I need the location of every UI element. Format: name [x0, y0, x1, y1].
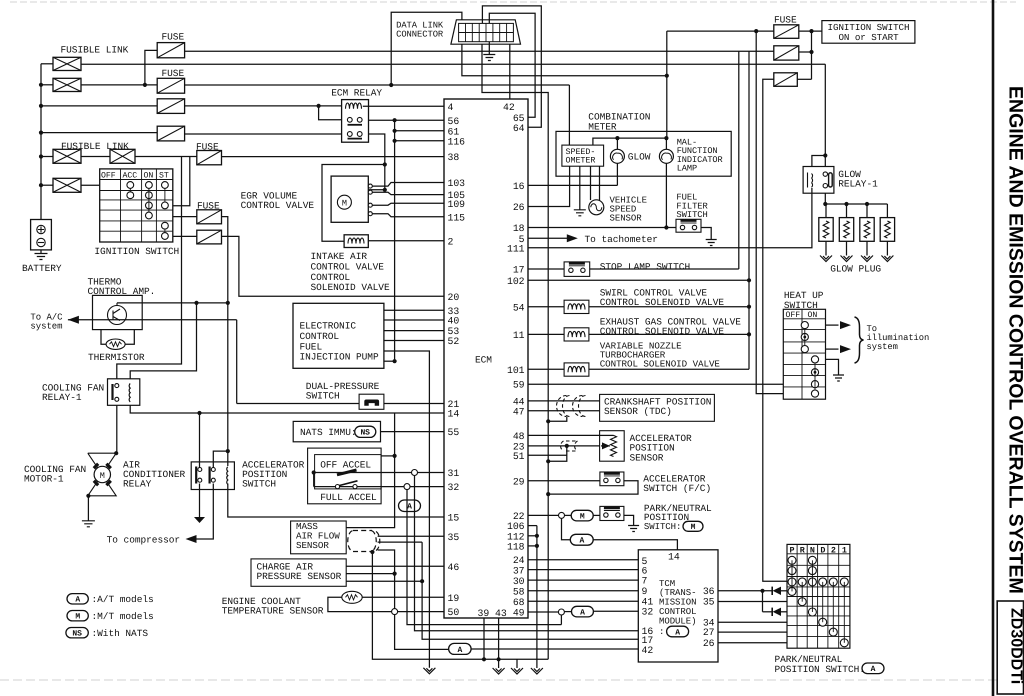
svg-text:1: 1: [842, 545, 847, 555]
svg-text:ACC: ACC: [123, 172, 138, 181]
svg-text:system: system: [867, 342, 898, 352]
wire connector ground: [488, 42, 490, 55]
wire accel switch common to ECM 15: [228, 484, 444, 518]
A/C relay + accelerator position switch box: [191, 462, 234, 490]
wire relay coil to ECM pin4: [363, 105, 444, 107]
wire ECM 39 to ground bus: [483, 618, 485, 659]
svg-text:M: M: [75, 613, 80, 622]
svg-text:51: 51: [513, 451, 525, 462]
svg-text:4: 4: [448, 102, 454, 113]
svg-text:P: P: [790, 545, 795, 555]
svg-text:MOTOR-1: MOTOR-1: [24, 474, 64, 485]
svg-text:To compressor: To compressor: [107, 535, 180, 546]
fuse F8 right top: [774, 25, 799, 39]
wire relay contact1 to pins 56/61/116: [369, 119, 445, 121]
PNP-A contacts N column: [808, 556, 816, 564]
solenoid swirl control valve: [564, 300, 589, 313]
wire intake solenoid to ECM pin2: [368, 240, 444, 242]
svg-text:RELAY-1: RELAY-1: [838, 179, 878, 190]
heat up switch contacts lower: [811, 356, 818, 363]
speedometer: [562, 145, 604, 166]
svg-text::A/T models: :A/T models: [92, 594, 154, 605]
svg-text:A: A: [75, 596, 80, 605]
diode D2: [771, 608, 773, 616]
wire FL3b to fuse F5: [135, 156, 197, 158]
wire ECM 68 to TCM 41: [528, 600, 638, 602]
svg-text:RELAY-1: RELAY-1: [42, 392, 82, 403]
fuse F9 right middle: [774, 46, 799, 60]
wire ECM 101 to turbo solenoid: [528, 368, 564, 370]
wire F1 output long: [185, 50, 774, 52]
wire glow plug bus: [824, 193, 826, 204]
svg-text:111: 111: [507, 243, 525, 254]
wire ECM 106/112/118 bracket: [528, 525, 537, 527]
svg-text:58: 58: [513, 587, 525, 598]
battery bus wire: [40, 64, 42, 220]
engine coolant temperature sensor: [342, 591, 362, 603]
wire ECM 22 line: [528, 514, 562, 516]
oval A (31/32): [399, 500, 421, 512]
PNP-A contacts 2 column: [829, 578, 837, 586]
svg-text:14: 14: [668, 551, 680, 562]
svg-text:CONTROL: CONTROL: [311, 272, 351, 283]
svg-text::M/T models: :M/T models: [92, 611, 154, 622]
svg-text:101: 101: [507, 365, 525, 376]
svg-text:A: A: [407, 503, 412, 512]
wire ign box feed vertical: [811, 31, 813, 79]
ignition switch contacts ON: [146, 182, 153, 189]
wire F9 right side: [799, 51, 812, 53]
svg-text:17: 17: [513, 265, 525, 276]
node dots ground bus: [482, 657, 486, 661]
wire F1 input from FL2 node: [145, 50, 157, 85]
cooling fan motor: [88, 453, 116, 496]
svg-text:ECM: ECM: [475, 355, 492, 366]
wire TCM 34 to PNP-A: [718, 621, 787, 623]
svg-text:PRESSURE SENSOR: PRESSURE SENSOR: [257, 571, 342, 582]
NATS IMMU box: [293, 421, 380, 441]
svg-text:32: 32: [642, 607, 654, 618]
svg-text:FUSE: FUSE: [162, 32, 185, 43]
oval NS: [355, 426, 376, 437]
svg-text:SWITCH:: SWITCH:: [644, 522, 681, 532]
svg-text:39 43: 39 43: [478, 608, 507, 619]
legend oval M: [67, 611, 88, 621]
ECM relay contact 1: [347, 117, 352, 122]
wire pump to ECM 40: [384, 319, 444, 321]
off accel closed contact: [337, 470, 357, 475]
wire relay contact2 to EGR loop: [369, 134, 385, 190]
svg-text:FUSIBLE LINK: FUSIBLE LINK: [61, 141, 129, 152]
wire ignition start feed: [667, 30, 774, 32]
svg-text:64: 64: [513, 123, 525, 134]
svg-text:To tachometer: To tachometer: [585, 234, 658, 245]
wire MIL down to pin18 line: [665, 163, 667, 227]
crankshaft position sensor label box: [600, 394, 715, 421]
wire F6 output down (accel switch feed): [222, 217, 228, 303]
wire F10 output down to PNP-A common: [763, 79, 787, 581]
node dot mid wire to MIL vertical: [665, 74, 669, 78]
svg-text:SWITCH: SWITCH: [676, 210, 707, 220]
wire EGR loop to intake solenoid: [322, 165, 385, 242]
PNP-A contacts D column: [819, 578, 827, 586]
svg-text:115: 115: [448, 212, 466, 223]
svg-text:26: 26: [703, 638, 715, 649]
svg-text:49: 49: [513, 608, 525, 619]
svg-text:SENSOR (TDC): SENSOR (TDC): [604, 406, 672, 417]
cooling fan relay contact spring: [129, 384, 130, 402]
wire AC relay to ground triangle: [199, 484, 201, 518]
wire ECM 102 to feed: [528, 279, 749, 281]
wire connector pin to trunk: [482, 44, 548, 659]
wire EGR pin to ECM 105: [372, 192, 444, 194]
svg-text:2: 2: [448, 236, 454, 247]
svg-text:ON: ON: [808, 311, 818, 320]
svg-text:ON: ON: [144, 172, 154, 181]
wire TCM17 link: [422, 542, 638, 639]
wire ECM 48 to accel sensor: [528, 434, 600, 436]
wire 22 A-branch to TCM 14: [562, 518, 571, 539]
ZD30DDTi box: [997, 601, 1023, 694]
wire accel shield: [565, 444, 569, 448]
svg-text:55: 55: [448, 427, 460, 438]
vehicle speed sensor: [589, 200, 604, 215]
fuse F1 (top left): [157, 43, 184, 58]
ECM relay coil: [346, 103, 362, 109]
mass air flow sensor box: [291, 521, 347, 554]
svg-text:11: 11: [513, 330, 525, 341]
oval A on TCM42 line: [449, 643, 472, 654]
full accel open contact: [335, 485, 339, 489]
wire 49-circle down to 32-branch line: [560, 615, 562, 625]
fuse F10 right lower: [774, 73, 798, 87]
wire cooling fan relay coil feed from F5 trunk: [117, 157, 182, 379]
connector circle on 50 line: [392, 609, 398, 615]
ECM: [444, 99, 528, 618]
svg-text:116: 116: [448, 136, 466, 147]
svg-text:MODULE): MODULE): [659, 616, 696, 626]
svg-text:42: 42: [642, 645, 654, 656]
wire cooling fan relay contact feed from thermo amp: [130, 303, 196, 379]
wire pin32 branch down to 49 link: [407, 490, 561, 625]
svg-text:M: M: [580, 513, 585, 522]
accel switch inner box: [315, 455, 382, 489]
wire speedometer ground: [579, 166, 581, 210]
svg-text:STOP LAMP SWITCH: STOP LAMP SWITCH: [600, 261, 690, 272]
wire ECM 24 to TCM 5: [528, 559, 638, 561]
svg-text:N: N: [810, 545, 815, 555]
wire MAF to ECM 35: [378, 535, 444, 537]
battery B+ node dots: [39, 83, 43, 87]
wire F4 output to ECM relay contact2: [185, 133, 342, 135]
wire pump aux down to ground bus: [384, 351, 430, 668]
wire heat-up feed vertical: [756, 31, 783, 394]
heat up switch contacts upper: [801, 322, 808, 329]
svg-text:59: 59: [513, 380, 525, 391]
solenoid intake air control valve: [344, 235, 368, 248]
svg-text:ZD30DDTi: ZD30DDTi: [1008, 608, 1024, 684]
wire motor to ground: [86, 494, 90, 498]
wire glow relay contact feed: [824, 64, 826, 166]
svg-text:PARK/NEUTRAL: PARK/NEUTRAL: [775, 654, 843, 665]
wire feed T on 14 line down to MAF: [346, 413, 394, 528]
accel switch OFF/FULL outer box: [308, 448, 382, 504]
svg-text:50: 50: [448, 607, 460, 618]
arrow to A/C system: [68, 316, 79, 324]
svg-text:26: 26: [513, 202, 525, 213]
glow lamp: [616, 138, 618, 149]
svg-text:CONTROL: CONTROL: [300, 331, 340, 342]
svg-text:68: 68: [513, 597, 525, 608]
wire F2 output long to speedometer drop: [185, 84, 570, 86]
wire ECM 54 to swirl solenoid: [528, 306, 564, 308]
fusible link FL1: [41, 63, 53, 65]
EGR valve pins upper: [368, 184, 372, 188]
cooling fan relay coil pins: [111, 384, 113, 400]
wire A/C line through amp: [68, 319, 237, 321]
svg-text:TEMPERATURE SENSOR: TEMPERATURE SENSOR: [222, 606, 324, 617]
PNP-A contacts 1 column: [840, 578, 848, 586]
fuse F7: [197, 230, 222, 244]
glow relay contact: [823, 172, 827, 176]
wire TCM 27 to PNP-A: [718, 631, 787, 633]
svg-text:THERMISTOR: THERMISTOR: [88, 352, 145, 363]
thermistor bracket: [101, 330, 106, 345]
wire ECM 44 to crank sensor: [528, 400, 600, 402]
relay ECM-RELAY: [342, 100, 369, 143]
ECM relay contact 2: [347, 132, 352, 137]
wire connector loop B to ECM pin65: [489, 13, 535, 117]
svg-text:2: 2: [831, 545, 836, 555]
svg-text:INJECTION PUMP: INJECTION PUMP: [300, 352, 379, 363]
svg-text:LAMP: LAMP: [677, 163, 697, 173]
wire pump to ECM 53: [384, 330, 444, 332]
wire heat up to illumination 1: [826, 324, 839, 326]
svg-text:OFF ACCEL: OFF ACCEL: [320, 459, 371, 470]
wire ECM 49 to TCM 32 with A oval: [528, 611, 561, 613]
wire TCM 26 to PNP-A: [718, 642, 787, 644]
accelerator position sensor: [600, 431, 625, 462]
brace illumination: [855, 317, 864, 363]
wire full-accel row to ECM 32: [313, 473, 315, 487]
svg-text:CONTROL SOLENOID VALVE: CONTROL SOLENOID VALVE: [600, 297, 725, 308]
wire stop lamp feed vertical: [738, 51, 740, 269]
wire F/C switch return to trunk: [548, 481, 638, 494]
svg-text:CONTROL VALVE: CONTROL VALVE: [241, 200, 315, 211]
wire ECM 59 to heat up switch: [528, 383, 783, 385]
svg-text:CONTROL SOLENOID VALVE: CONTROL SOLENOID VALVE: [600, 358, 721, 369]
wire ECM 58 to TCM 9: [528, 590, 638, 592]
wire relay to cooling fan motor: [116, 405, 118, 453]
svg-text:OMETER: OMETER: [566, 156, 596, 166]
fuse F2: [157, 78, 184, 93]
svg-text:30: 30: [513, 576, 525, 587]
ignition switch on/start box: [822, 21, 915, 44]
wire ECM 11 to exhaust solenoid: [528, 333, 564, 335]
wire F8 to ignition switch box: [799, 30, 822, 32]
EGR volume control valve: [331, 176, 368, 222]
wire coolant sensor bracket to ECM 50: [328, 597, 444, 611]
svg-text:54: 54: [513, 302, 525, 313]
wire TCM 35 to PNP-A: [718, 601, 787, 603]
wire FL4 to ignition switch: [81, 184, 100, 186]
svg-text:SOLENOID VALVE: SOLENOID VALVE: [311, 282, 390, 293]
wire F7 output to ECM pin20: [222, 236, 445, 296]
svg-text:SENSOR: SENSOR: [610, 214, 643, 224]
wire heat up to illumination 2: [826, 348, 839, 350]
wire AC relay coil feed: [199, 413, 201, 468]
PNP-A contacts P column: [788, 556, 796, 564]
wire glow lamp to ECM 16: [616, 163, 618, 185]
wire ECM 17 to stop lamp switch: [528, 268, 564, 270]
svg-text:40: 40: [448, 316, 460, 327]
wire ECM 43 to ground bus and ground: [498, 618, 500, 668]
svg-text:CONTROL VALVE: CONTROL VALVE: [311, 261, 385, 272]
connector circle pin31: [412, 470, 418, 476]
thermistor: [106, 339, 125, 349]
svg-text:M: M: [342, 198, 347, 208]
wire EGR pin to ECM 103: [372, 183, 444, 187]
wire MIL feed vertical: [666, 31, 668, 76]
ground stub on bus: [516, 659, 518, 668]
wire accel box feed: [381, 455, 395, 457]
node dot ECM relay feed: [317, 104, 321, 108]
svg-text:18: 18: [513, 223, 525, 234]
svg-text:CONNECTOR: CONNECTOR: [396, 30, 444, 40]
wire ECM 47 to crank sensor: [528, 410, 600, 412]
ignition switch contacts ST: [162, 182, 169, 189]
wire diode branch down: [762, 591, 764, 612]
svg-text:FUSE: FUSE: [774, 14, 797, 25]
wire A oval to TCM 42: [471, 648, 638, 650]
solenoid variable nozzle turbocharger: [564, 363, 589, 376]
wire pin31 branch down to TCM16: [415, 476, 639, 631]
accelerator switch F/C: [600, 472, 624, 486]
wire EGR pin to ECM 109: [372, 203, 444, 205]
svg-text:20: 20: [448, 292, 460, 303]
wire pump to ECM 52: [384, 340, 444, 342]
svg-text:38: 38: [448, 152, 460, 163]
thermo control amp: [93, 295, 143, 329]
scan artifact line top: [10, 1, 1016, 3]
fuse F6: [197, 210, 222, 224]
combination meter box: [556, 131, 731, 176]
svg-text:OFF: OFF: [101, 172, 116, 181]
ground below battery: [40, 250, 42, 254]
svg-text:METER: METER: [588, 121, 617, 132]
svg-text:ON or START: ON or START: [838, 32, 899, 43]
svg-text:14: 14: [448, 409, 460, 420]
wire ign bottom row to fuse F7: [173, 235, 197, 237]
accel switch coil: [227, 467, 228, 485]
svg-text:35: 35: [703, 597, 715, 608]
svg-text:36: 36: [703, 586, 715, 597]
wire charge air to ECM 46: [346, 565, 444, 567]
fuse F5 (ignition aux): [197, 151, 222, 165]
svg-text:32: 32: [448, 482, 460, 493]
svg-text:ELECTRONIC: ELECTRONIC: [300, 321, 357, 332]
park/neutral position switch (A/T) grid: [787, 544, 850, 648]
wire glow relay coil to ECM 111: [528, 188, 812, 248]
charge air pressure sensor: [251, 559, 346, 586]
wire ECM 51: [528, 454, 567, 456]
svg-text:118: 118: [507, 542, 525, 553]
svg-text:37: 37: [513, 565, 525, 576]
svg-text:M: M: [100, 471, 105, 481]
legend oval A: [67, 594, 88, 604]
wire off-accel row to ECM 31: [312, 470, 316, 474]
svg-text:102: 102: [507, 276, 525, 287]
svg-text:A: A: [675, 628, 680, 637]
wire swirl solenoid to feed: [589, 306, 749, 308]
svg-text:109: 109: [448, 199, 466, 210]
svg-text:M: M: [691, 523, 696, 532]
fusible link FL3b: [110, 149, 135, 163]
wire thermo amp output: [117, 302, 228, 304]
wire ECM 23 to accel sensor: [528, 445, 606, 447]
wire MAF to A-oval TCM42 link: [378, 550, 449, 649]
svg-text:56: 56: [448, 116, 460, 127]
svg-text:SENSOR: SENSOR: [296, 540, 329, 551]
wire A/C line down to pin21 line: [236, 320, 238, 404]
wire ECM relay contact1 feed: [319, 106, 342, 120]
wire crank shield to trunk: [548, 417, 567, 421]
wire F10 right side: [797, 78, 811, 80]
wire MAF 4th pin to TCM17 vertical: [378, 541, 423, 543]
wire NATS to ECM 55: [381, 431, 445, 433]
glow plugs: [825, 204, 827, 218]
svg-text:FUSE: FUSE: [162, 68, 185, 79]
svg-text:A: A: [580, 609, 585, 618]
wire pump to relay power vertical: [384, 360, 395, 362]
wire coolant sensor to ECM 19: [362, 596, 444, 598]
svg-text:NATS IMMU:: NATS IMMU:: [300, 427, 357, 438]
svg-text:27: 27: [703, 627, 715, 638]
svg-text:15: 15: [448, 513, 460, 524]
AC relay element2: [209, 467, 211, 484]
data link connector: [451, 20, 521, 44]
wire ign row3 to F5 line: [173, 157, 190, 206]
wire F5 output long to ECM pin38 row: [222, 156, 445, 158]
wire speedometer feed from F2: [568, 85, 570, 145]
svg-text:GLOW PLUG: GLOW PLUG: [830, 264, 881, 275]
trunk shield/ground vertical: [546, 419, 550, 423]
svg-text:BATTERY: BATTERY: [22, 263, 62, 274]
svg-text:19: 19: [448, 593, 460, 604]
wire branch pins 61,116: [394, 120, 396, 361]
wire lamp feed from speedometer: [593, 138, 667, 145]
svg-text:SWITCH: SWITCH: [242, 478, 276, 489]
wire connector pin to ECM pin42: [509, 44, 511, 99]
EGR valve pins lower: [368, 203, 372, 207]
oval M on 22 line: [565, 514, 572, 516]
svg-text:FUEL: FUEL: [300, 341, 323, 352]
fusible link FL2: [41, 84, 53, 86]
wire ECM 21 line: [237, 403, 444, 405]
svg-text::: :: [659, 627, 664, 637]
svg-text:ST: ST: [159, 172, 169, 181]
wire FL3a-FL3b: [81, 156, 110, 158]
fuel filter switch: [676, 219, 701, 232]
svg-text:NS: NS: [72, 630, 82, 639]
svg-text:16: 16: [513, 181, 525, 192]
wire speedometer to VSS: [590, 166, 592, 200]
wire charge air mid to MAF vertical: [346, 573, 394, 575]
svg-text:31: 31: [448, 468, 460, 479]
legend oval NS: [66, 628, 88, 638]
node dot data-link label loop on F2 wire: [389, 83, 393, 87]
heat up switch table: [783, 309, 825, 399]
